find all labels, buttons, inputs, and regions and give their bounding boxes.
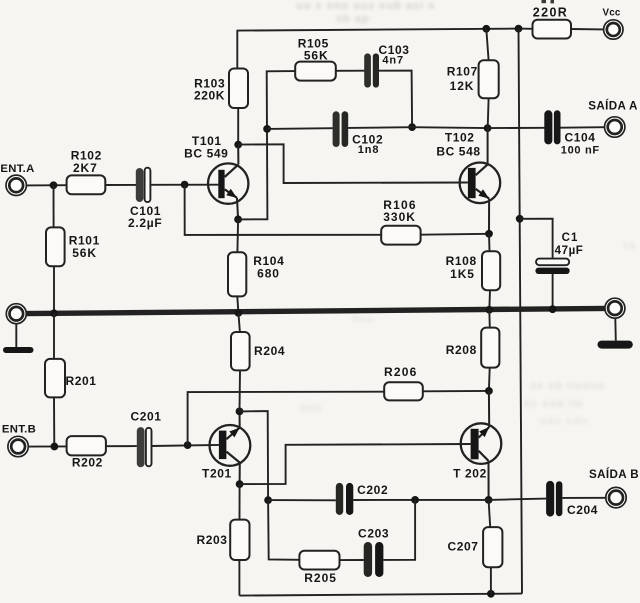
- wire 220R to Vcc: [571, 28, 603, 30]
- wire to right ground: [614, 318, 617, 340]
- wire R105 to C103: [336, 70, 365, 72]
- svg-text:R204: R204: [254, 344, 285, 358]
- node top wire / supply rail: [515, 25, 523, 33]
- wire R103 top column: [236, 30, 238, 69]
- ground bus: [25, 308, 607, 313]
- svg-text:se eb nuoso: se eb nuoso: [530, 380, 605, 392]
- wire C202 row left: [268, 499, 336, 501]
- wire C104 to SAIDA A: [561, 126, 605, 129]
- svg-text:2.2µF: 2.2µF: [128, 216, 162, 230]
- wire T101 collector to T102 base: [238, 144, 468, 183]
- wire R101 to ground bus: [53, 266, 55, 313]
- node C202 left: [264, 496, 272, 504]
- resistor R106 330K: [381, 226, 420, 245]
- svg-text:C201: C201: [130, 409, 161, 423]
- resistor R108 1K5: [482, 251, 500, 290]
- svg-text:oeu: oeu: [352, 313, 375, 325]
- node input B junction: [51, 443, 59, 451]
- svg-text:1n8: 1n8: [358, 144, 380, 156]
- wire T202 emitter stub: [488, 391, 490, 427]
- wire C102 to output A row: [348, 126, 412, 129]
- wire R203 to bottom rail: [238, 560, 240, 596]
- transistor T202: [461, 423, 502, 464]
- capacitor C201: [137, 427, 145, 467]
- wire ENT.B to R202: [29, 445, 67, 447]
- resistor R1 220R: [533, 20, 572, 39]
- svg-text:uu s sno ouz eub asi s: uu s sno ouz eub asi s: [296, 0, 435, 12]
- node T201 emitter: [236, 408, 244, 416]
- wire T202 collector stub: [488, 461, 490, 500]
- wire T101 emitter feedback riser: [238, 71, 295, 219]
- resistor R105: [295, 62, 336, 81]
- wire T201 emitter stub: [239, 411, 241, 427]
- svg-text:T 202: T 202: [453, 467, 487, 481]
- svg-text:1K5: 1K5: [450, 267, 475, 281]
- wire R202 to C201: [106, 445, 137, 447]
- resistor R103: [229, 69, 248, 109]
- svg-text:sb ap: sb ap: [336, 13, 370, 25]
- svg-text:330K: 330K: [383, 210, 416, 224]
- resistor R102: [67, 175, 106, 194]
- wire T102 emitter stub: [488, 199, 490, 234]
- resistor R203: [239, 484, 241, 519]
- wire R102 to C101: [105, 184, 136, 186]
- svg-text:C207: C207: [447, 539, 478, 553]
- wire T102 collector stub: [487, 128, 489, 164]
- svg-text:SAÍDA B: SAÍDA B: [589, 468, 639, 481]
- wire R206 to T202 emitter column: [423, 390, 489, 392]
- wire R204 to T201 emitter node: [239, 370, 242, 411]
- svg-text:R108: R108: [446, 254, 477, 268]
- node T101 base: [181, 181, 189, 189]
- svg-text:220R: 220R: [533, 5, 568, 19]
- svg-text:ENT.A: ENT.A: [0, 163, 34, 175]
- svg-text:R201: R201: [65, 374, 96, 388]
- node bottom rail / C207: [487, 590, 495, 598]
- wire C202 to C204: [353, 499, 488, 501]
- wire base to R206 row: [188, 392, 385, 445]
- svg-text:R206: R206: [384, 365, 418, 379]
- node feedback / C102: [263, 125, 271, 133]
- capacitor C1 47uF: [536, 259, 569, 266]
- svg-text:rs: rs: [624, 240, 636, 252]
- wire emitter to R108: [488, 234, 491, 251]
- node T101 emitter: [234, 216, 242, 224]
- ground terminal left: [6, 304, 26, 324]
- node T201 base: [184, 441, 192, 449]
- transistor T101 BC549: [208, 163, 248, 203]
- capacitor C101: [136, 168, 144, 202]
- svg-text:220K: 220K: [194, 89, 225, 103]
- svg-text:Vcc: Vcc: [602, 7, 620, 18]
- supply rail vertical: [519, 29, 523, 594]
- ENT.A terminal: [6, 175, 26, 195]
- node T102 emitter / R106: [485, 230, 493, 238]
- capacitor C202: [336, 483, 343, 515]
- svg-text:680: 680: [257, 267, 280, 281]
- svg-text:100 nF: 100 nF: [561, 145, 600, 157]
- node bus R101/R201: [50, 309, 58, 317]
- wire C203 riser to C202 row: [383, 500, 415, 560]
- svg-text:56K: 56K: [304, 48, 329, 62]
- svg-text:uas sdo: uas sdo: [540, 415, 589, 427]
- svg-text:12K: 12K: [450, 79, 475, 93]
- svg-text:C202: C202: [357, 483, 388, 497]
- resistor R205: [299, 551, 339, 570]
- node bus R104/R204: [235, 309, 243, 317]
- resistor R201: [53, 313, 55, 359]
- SAIDA B terminal: [606, 487, 626, 507]
- wire R106 to T102 emitter: [421, 233, 489, 236]
- transistor T201: [210, 425, 251, 466]
- svg-text:T102: T102: [445, 130, 475, 144]
- svg-text:BC 549: BC 549: [184, 146, 228, 160]
- wire C201 to T201 base: [152, 445, 219, 446]
- wire T201 collector to T202 base: [240, 444, 471, 484]
- wire output A to C104: [488, 127, 545, 129]
- svg-text:SAÍDA A: SAÍDA A: [588, 100, 638, 113]
- transistor T102 BC548: [460, 163, 501, 204]
- wire R205 to C203: [340, 559, 364, 561]
- resistor R107 12K: [486, 29, 488, 60]
- wire C1 to ground bus: [552, 274, 554, 311]
- resistor R101: [53, 185, 55, 227]
- svg-text:R107: R107: [447, 64, 478, 78]
- wire C207 to bottom rail: [490, 567, 492, 594]
- resistor R204: [238, 313, 240, 332]
- Vcc terminal: [604, 20, 623, 39]
- svg-text:C203: C203: [358, 527, 389, 541]
- svg-text:R203: R203: [196, 533, 227, 547]
- ground symbol left: [3, 347, 34, 353]
- SAIDA A terminal: [605, 117, 625, 137]
- resistor R206: [384, 382, 423, 400]
- svg-text:ENT.B: ENT.B: [2, 424, 36, 436]
- ground terminal right: [605, 298, 625, 318]
- resistor R208: [488, 310, 491, 328]
- wire C101 to T101 base: [150, 184, 218, 186]
- wire C103 down to C102 node: [379, 71, 412, 128]
- wire R201 to input B: [53, 397, 55, 446]
- svg-text:T201: T201: [202, 467, 232, 481]
- svg-text:56K: 56K: [72, 246, 97, 260]
- node R205/C203 riser: [411, 496, 419, 504]
- capacitor C204: [546, 481, 554, 517]
- ENT.B terminal: [8, 436, 28, 456]
- svg-text:BC 548: BC 548: [436, 145, 480, 159]
- capacitor C104 100nF: [544, 110, 552, 144]
- svg-text:eos: eos: [300, 402, 322, 414]
- svg-text:R202: R202: [72, 456, 103, 470]
- wire emitter to R104: [236, 219, 239, 252]
- wire ENT.A to R102: [26, 184, 66, 186]
- node bus C1: [549, 305, 557, 313]
- wire C204 to SAIDA B: [562, 497, 605, 499]
- capacitor C203: [364, 542, 372, 577]
- wire C102 row: [267, 127, 333, 130]
- node C103/C102 right: [408, 123, 416, 131]
- wire T201 collector stub: [239, 463, 241, 485]
- svg-text:47µF: 47µF: [555, 245, 584, 257]
- svg-text:C104: C104: [564, 131, 595, 145]
- resistor R202: [67, 436, 106, 455]
- wire to left ground: [15, 324, 17, 348]
- wire R104 to ground bus: [237, 296, 238, 313]
- wire R208 to emitter column: [488, 368, 491, 391]
- node T102 collector: [484, 124, 492, 132]
- wire T101 collector stub: [237, 145, 239, 164]
- wire rail to C1: [520, 219, 553, 259]
- node T201 collector: [236, 480, 244, 488]
- svg-text:C1: C1: [562, 232, 579, 244]
- svg-text:C204: C204: [567, 503, 598, 517]
- wire T201 emitter feedback: [240, 411, 269, 500]
- node T101 collector: [234, 141, 242, 149]
- ground symbol right: [598, 341, 633, 349]
- node T202 collector / C202 row: [485, 496, 493, 504]
- svg-text:4n7: 4n7: [382, 54, 404, 66]
- wire R108 to ground bus: [488, 290, 491, 310]
- wire R107 to T102 collector: [487, 98, 490, 128]
- wire Vcc top rail: [237, 29, 532, 31]
- svg-text:R205: R205: [304, 571, 337, 585]
- wire C202-left loop to R205: [268, 500, 299, 560]
- wire collector row to C204: [489, 499, 547, 500]
- wire T101 base to R106: [185, 185, 382, 235]
- node input A junction: [50, 181, 58, 189]
- wire R103 to T101 collector: [237, 108, 239, 145]
- capacitor C103 4n7: [364, 53, 371, 87]
- node R206 / emitter column: [485, 387, 493, 395]
- node top wire / R107: [482, 25, 490, 33]
- wire T101 emitter stub: [237, 198, 238, 220]
- node bus R108/R208: [485, 306, 493, 314]
- svg-text:R208: R208: [446, 343, 477, 357]
- resistor R104: [228, 252, 246, 296]
- svg-text:2K7: 2K7: [73, 161, 98, 175]
- capacitor C207: [489, 500, 491, 527]
- node rail / C1 tap: [516, 215, 524, 223]
- capacitor C102 1n8: [333, 111, 340, 147]
- svg-text:ec eob im: ec eob im: [524, 398, 584, 410]
- bottom rail wire: [239, 594, 522, 596]
